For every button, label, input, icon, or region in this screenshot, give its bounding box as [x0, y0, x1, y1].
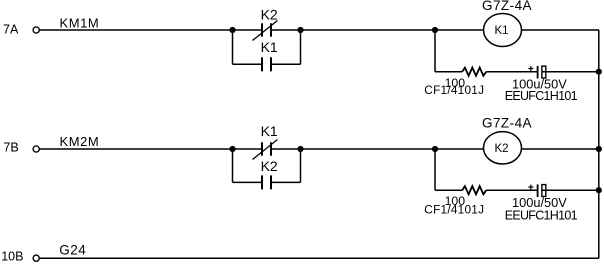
wire rc2 to resistor — [435, 189, 462, 191]
wire branch bottom right K2 — [271, 181, 301, 183]
wire branch right down K1 — [300, 30, 302, 64]
svg-text:K2: K2 — [261, 158, 278, 174]
wire resistor to cap rung1 — [486, 71, 538, 73]
wire rung2 right — [522, 148, 600, 150]
wire resistor to cap rung2 — [486, 189, 537, 191]
svg-text:K2: K2 — [261, 6, 278, 22]
wire rung2 left — [40, 148, 263, 150]
svg-text:G7Z-4A: G7Z-4A — [482, 116, 532, 131]
wire rung1 mid — [271, 29, 484, 31]
junction rung1 contact-right — [297, 27, 303, 33]
svg-text:CF1/4101J: CF1/4101J — [424, 83, 484, 97]
svg-text:10B: 10B — [1, 250, 23, 264]
junction rail rc1 — [596, 69, 602, 75]
junction rung2 rc-tap — [432, 146, 438, 152]
resistor R 100 rung2 — [462, 186, 486, 194]
contact K1 NO bar right — [270, 57, 272, 71]
wire branch left down K2 — [232, 149, 234, 182]
svg-text:KM1M: KM1M — [60, 16, 100, 31]
junction rung1 contact-left — [229, 27, 235, 33]
wire branch bottom left K1 — [233, 63, 263, 65]
svg-text:7A: 7A — [3, 22, 19, 36]
terminal 7B — [33, 146, 39, 152]
contact K2 NC bar right — [270, 23, 272, 36]
svg-text:G7Z-4A: G7Z-4A — [482, 0, 532, 13]
terminal 10B — [33, 255, 39, 261]
capacitor C plus sign rung1 — [528, 66, 533, 71]
junction rung2 contact-left — [229, 146, 235, 152]
junction rung2 contact-right — [297, 146, 303, 152]
svg-text:KM2M: KM2M — [60, 134, 100, 149]
coil K2 circle — [484, 132, 522, 164]
svg-text:G24: G24 — [59, 243, 86, 258]
contact K1 NC slash — [253, 140, 278, 160]
terminal 7A — [33, 27, 39, 33]
svg-text:CF1/4101J: CF1/4101J — [424, 202, 484, 216]
resistor R 100 rung1 — [462, 68, 486, 76]
wire bottom rail G24 — [40, 257, 599, 259]
junction rail rung2 — [596, 146, 602, 152]
svg-text:K1: K1 — [494, 25, 508, 37]
wire branch bottom left K2 — [233, 181, 263, 183]
svg-text:K1: K1 — [261, 39, 278, 55]
svg-text:EEUFC1H101: EEUFC1H101 — [505, 89, 578, 103]
svg-text:K1: K1 — [261, 123, 278, 139]
svg-text:EEUFC1H101: EEUFC1H101 — [505, 208, 578, 222]
wire rung1 right — [522, 29, 600, 31]
wire cap to rail rung1 — [542, 71, 599, 73]
svg-text:K2: K2 — [494, 143, 508, 155]
wire branch bottom right K1 — [271, 63, 301, 65]
contact K1 NC bar left — [261, 142, 263, 155]
contact K2 NC slash — [253, 21, 278, 41]
contact K2 NO bar left — [261, 175, 263, 189]
wire rung1 left — [40, 29, 263, 31]
wire cap to rail rung2 — [542, 189, 599, 191]
contact K1 NC bar right — [270, 142, 272, 155]
wire branch left down K1 — [232, 30, 234, 64]
capacitor C left plate rung2 — [537, 184, 539, 197]
svg-text:7B: 7B — [3, 140, 18, 154]
wire rc2 down — [434, 149, 436, 190]
wire rung2 mid — [271, 148, 484, 150]
wire rc1 down — [434, 30, 436, 72]
wire right rail — [598, 30, 600, 258]
contact K2 NC bar left — [261, 23, 263, 36]
junction rung1 rc-tap — [432, 27, 438, 33]
capacitor C right plate box rung2 — [542, 185, 546, 197]
junction rail rc2 — [596, 187, 602, 193]
capacitor C plus sign rung2 — [528, 185, 533, 190]
wire rc1 to resistor — [435, 71, 462, 73]
capacitor C left plate rung1 — [537, 66, 539, 79]
capacitor C right plate box rung1 — [542, 66, 546, 78]
contact K2 NO bar right — [270, 175, 272, 189]
wire branch right down K2 — [300, 149, 302, 182]
contact K1 NO bar left — [261, 57, 263, 71]
coil K1 circle — [484, 14, 522, 47]
